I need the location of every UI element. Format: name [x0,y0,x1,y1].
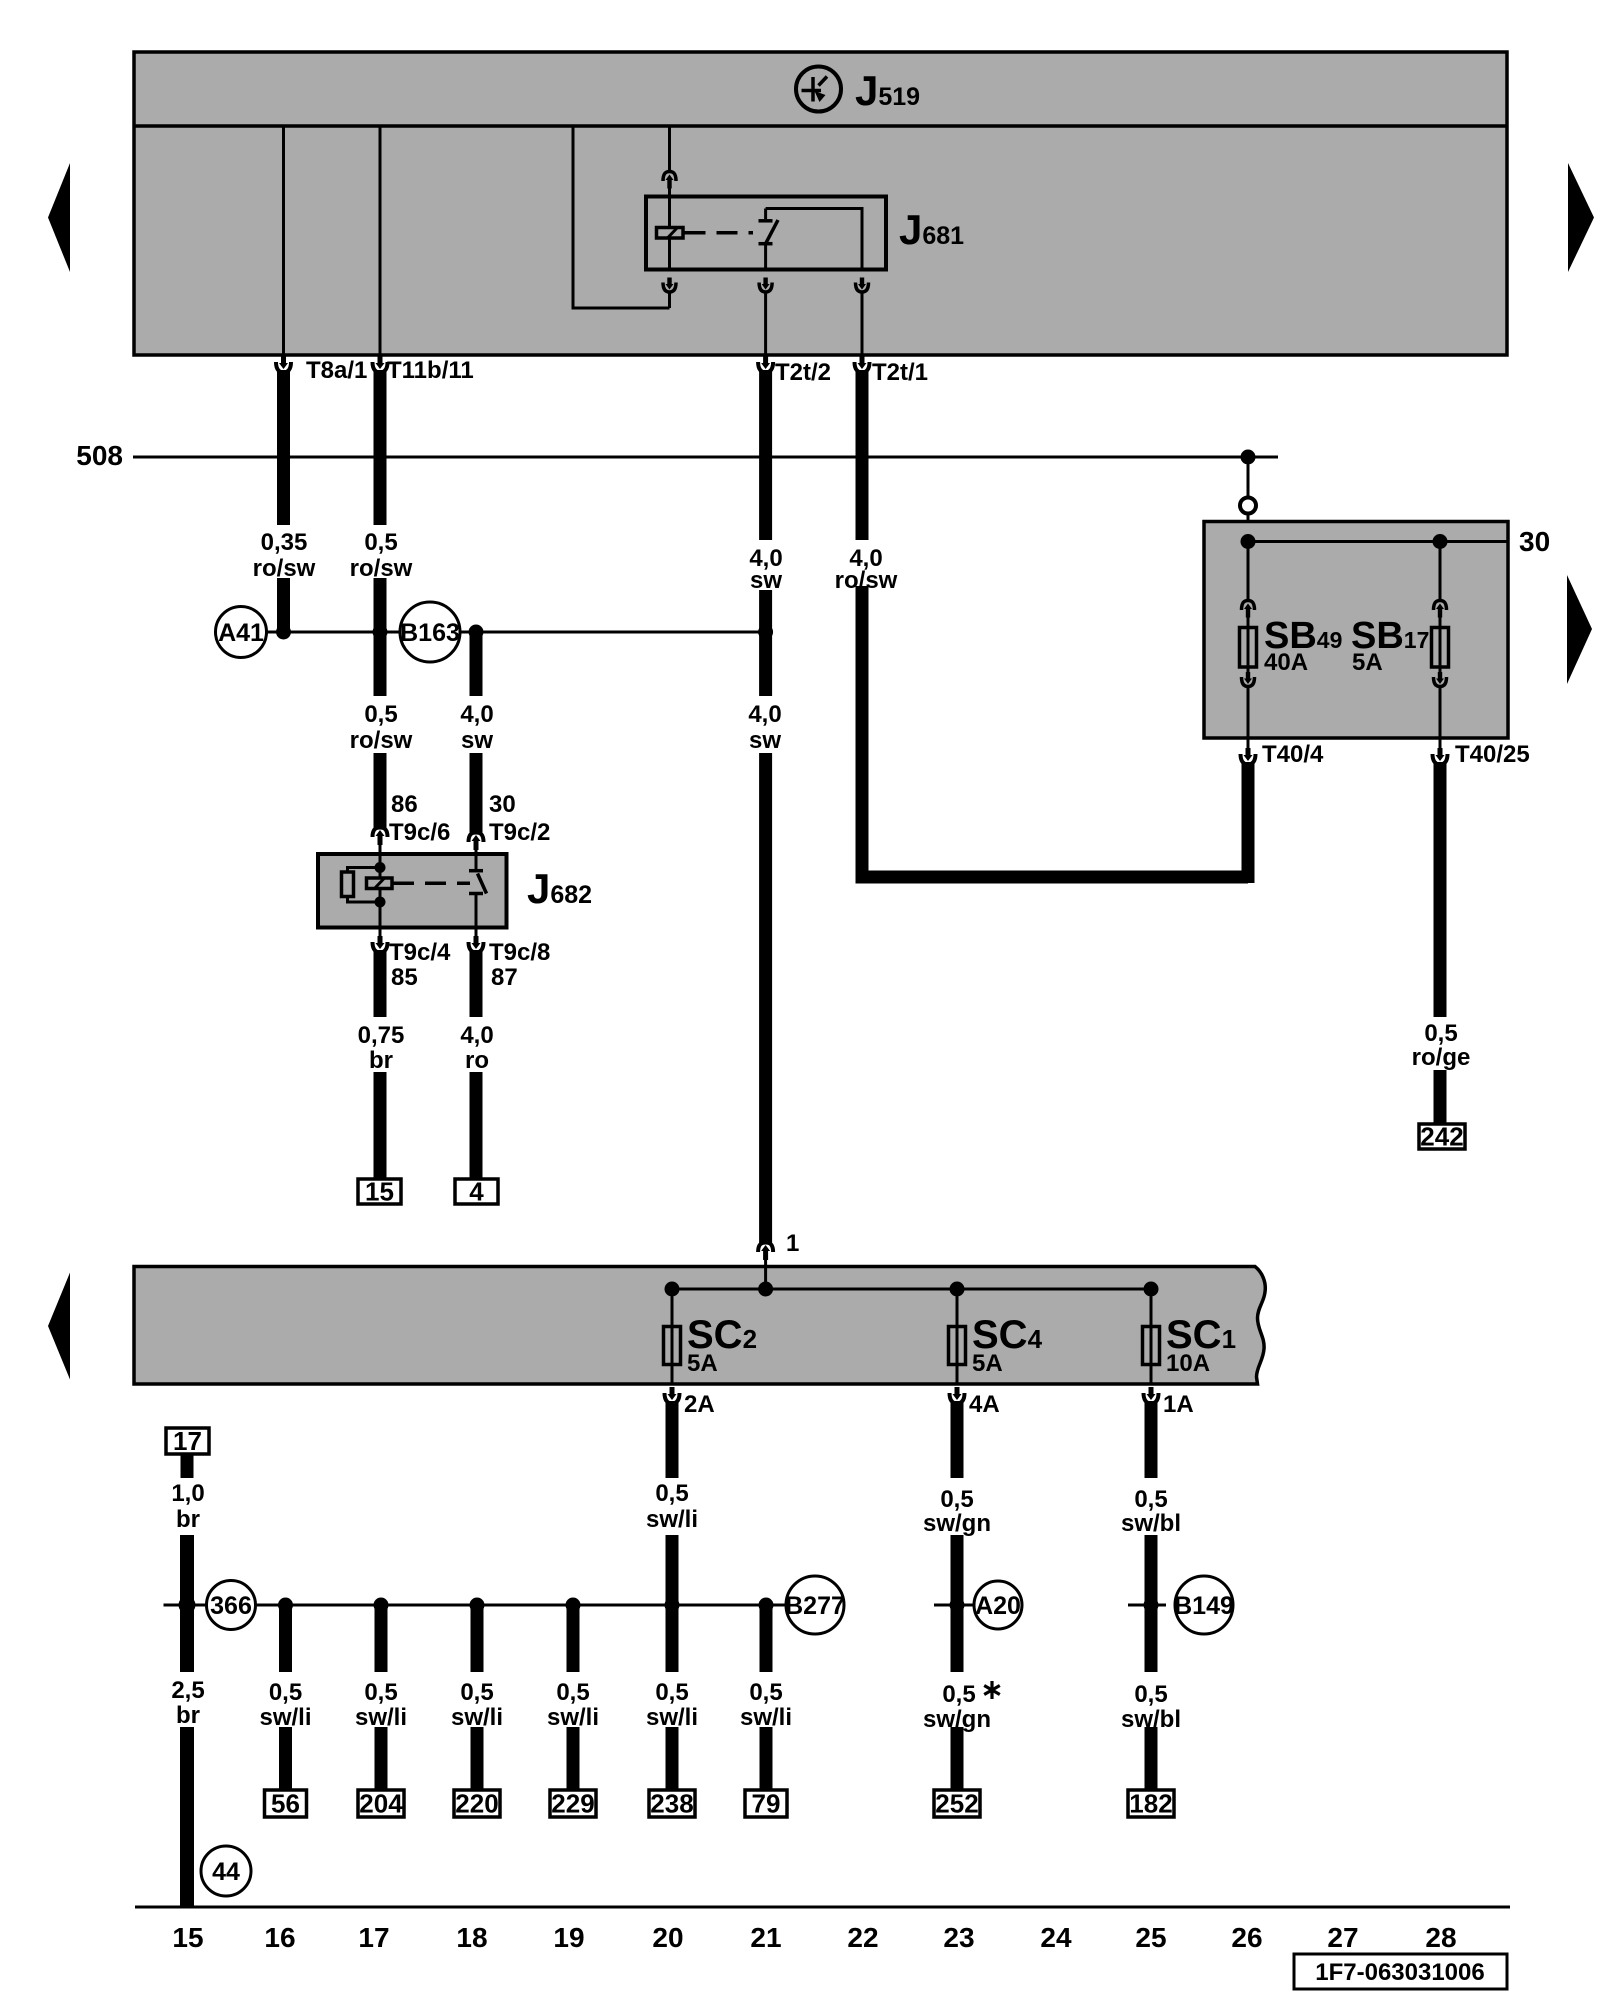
label T9c/4 [389,939,451,966]
label T8a/1 [306,357,367,384]
connector 1A (exit SC panel) [1144,1387,1159,1478]
svg-text:T9c/8: T9c/8 [489,939,550,966]
relay switch contact J682 [469,854,487,928]
label T2t/2 [775,359,831,386]
label 2A [684,1391,715,1418]
wire J519 internal supply to J681 coil (L-shape) [573,126,670,308]
svg-text:sw/li: sw/li [451,1704,503,1731]
connection node 44 circle [201,1846,251,1896]
svg-text:sw/li: sw/li [547,1704,599,1731]
svg-text:23: 23 [943,1922,974,1953]
wire 2,5 br to ground point 44 [180,1727,194,1908]
J519 control-unit symbol (circle with arrow) [796,67,841,112]
svg-text:br: br [176,1506,200,1533]
wire 1,0 br upper [181,1454,194,1478]
svg-text:0,5: 0,5 [364,1679,397,1706]
wire tick at B149 [1128,1604,1166,1607]
svg-text:sw/li: sw/li [259,1704,311,1731]
wire 0,5 ro/sw into J682 [374,753,387,828]
wire label 4,0 ro [460,1022,493,1074]
label 40A [1264,649,1308,676]
connection terminal 79 [745,1789,787,1819]
junction dot br wire [179,1597,196,1614]
connection terminal 56 [265,1789,307,1819]
svg-text:T40/4: T40/4 [1262,741,1324,768]
connector T8a/1 at J519 exit [276,356,291,525]
wire label 1,0 br [171,1480,204,1533]
wire 4,0 sw branch to relay J682 [470,632,483,696]
fuse SC4 5A [949,1289,966,1384]
label 10A (SC1) [1166,1350,1210,1377]
connection terminal 242 [1419,1122,1465,1152]
svg-text:220: 220 [455,1789,498,1819]
svg-text:sw/li: sw/li [646,1704,698,1731]
svg-text:T11b/11: T11b/11 [387,357,474,384]
wire J681 switch supply (top bridge to T2t/1) [766,209,862,270]
svg-text:25: 25 [1135,1922,1166,1953]
wire segment to terminal 252 [951,1727,964,1790]
svg-text:B163: B163 [400,619,460,647]
wire 0,5 ro/sw to relay J682 [374,632,387,696]
wire label 0,5 sw/li (79) [740,1679,792,1731]
junction dot 79 [759,1598,774,1613]
relay J682 box [318,854,507,928]
wire 0,5 ro/ge lower [1434,1070,1447,1124]
wire from 508 rail to connector circle [1247,457,1250,498]
wire 4,0 sw middle segment [759,590,772,632]
wire 4,0 sw long down to SC band [759,753,772,1243]
wire junction line A41-B163 [267,631,401,634]
label 5A (SC4) [972,1350,1003,1377]
svg-text:0,75: 0,75 [358,1022,405,1049]
svg-text:ro/ge: ro/ge [1412,1044,1471,1071]
connector pin J681 T2t/2 (arrow down) [759,278,772,356]
svg-text:5A: 5A [972,1350,1003,1377]
junction dot B149 [1144,1598,1159,1613]
label SC1 [1166,1313,1236,1357]
label 30 (battery rail) [1519,526,1550,557]
junction dot SC4 [950,1282,965,1297]
svg-text:20: 20 [652,1922,683,1953]
wire label 4,0 sw (T2t/2) [749,545,782,594]
label 87 [491,964,518,991]
ground terminal 15 [358,1177,401,1207]
svg-text:sw/bl: sw/bl [1121,1510,1181,1537]
dashed actuation line J682 [393,882,470,886]
label J519 [855,67,920,114]
wire label 0,35 ro/sw [253,529,316,582]
svg-text:sw/li: sw/li [355,1704,407,1731]
svg-text:sw: sw [461,727,493,754]
connector pin T9c/4 85 (exit J682) [379,928,382,937]
wire junction line B163 to 4,0 sw [460,631,766,634]
wire 4,0 sw to SC rail upper part [759,632,772,696]
svg-text:87: 87 [491,964,518,991]
J681 coil supply wire from J519 rail [668,126,671,171]
junction dot 56 [278,1598,293,1613]
wire 0,5 sw/li to terminal 238 [666,1605,679,1672]
connector T2t/2 at J519 exit [758,356,773,540]
svg-text:sw/li: sw/li [646,1506,698,1533]
svg-text:18: 18 [456,1922,487,1953]
wire 0,5 ro/sw middle segment [374,578,387,632]
svg-text:26: 26 [1231,1922,1262,1953]
svg-text:1A: 1A [1163,1391,1194,1418]
wire label 0,5 sw/li (from SC2) [646,1480,698,1533]
svg-text:16: 16 [264,1922,295,1953]
connector pin 30 T9c/2 (enter J682) [469,833,484,855]
svg-text:15: 15 [365,1177,394,1207]
wire 1,0 br to node 366 [180,1535,194,1672]
junction dot at 0,35 wire [276,625,291,640]
svg-text:T40/25: T40/25 [1455,741,1530,768]
label 86 [391,791,418,818]
wire label 4,0 ro/sw (T2t/1) [835,545,898,594]
label T9c/8 [489,939,550,966]
fuse SC2 5A [664,1289,681,1384]
label 5A (SC2) [687,1350,718,1377]
wire label 4,0 sw (to J682) [460,701,493,754]
svg-text:4,0: 4,0 [460,1022,493,1049]
wire label 0,5 sw/gn (from SC4) [923,1486,991,1537]
connector pin J681 coil bottom (arrow down) [663,278,676,309]
svg-text:0,35: 0,35 [261,529,308,556]
svg-text:2A: 2A [684,1391,715,1418]
wire 0,75 br lower [374,1072,387,1179]
connector circle (plug) above SB box [1240,498,1256,514]
wire segment to terminal 56 [279,1727,292,1790]
svg-text:21: 21 [750,1922,781,1953]
wire 4,0 ro/sw elbow T2t/1 to T40/4 [862,586,1248,877]
svg-text:366: 366 [210,1592,252,1620]
svg-text:5A: 5A [1352,649,1383,676]
svg-text:24: 24 [1040,1922,1072,1953]
svg-text:T9c/6: T9c/6 [389,819,450,846]
relay J681 box [646,197,886,270]
svg-text:T8a/1: T8a/1 [306,357,367,384]
junction dot at 4,0 branch [469,625,484,640]
label J681 [899,206,964,253]
wire 0,5 sw/li to node B277 rail [666,1535,679,1672]
connection node A20 circle [974,1581,1022,1629]
svg-text:56: 56 [271,1789,300,1819]
fuse SB49 40A [1247,542,1250,601]
wire 4,0 sw into J682 [470,753,483,833]
connector pin 1 (4,0 sw enters SC panel) [758,1243,773,1267]
wire label 0,5* sw/gn [923,1681,1000,1733]
connection terminal 204 [358,1789,404,1819]
svg-text:5A: 5A [687,1350,718,1377]
wire 30 rail inside SB box [1248,540,1508,543]
relay switch contact J681 [759,209,779,270]
label 508 [76,440,123,471]
junction dot wire 1 [758,1282,773,1297]
junction dot 238 [665,1598,680,1613]
junction dot 220 [470,1598,485,1613]
svg-text:252: 252 [935,1789,978,1819]
svg-text:0,5: 0,5 [655,1679,688,1706]
junction dot A20 [950,1598,965,1613]
junction dot SB17 [1433,534,1448,549]
svg-text:0,5: 0,5 [940,1486,973,1513]
svg-text:A41: A41 [218,619,264,647]
connection node A41 circle [216,607,267,658]
svg-text:182: 182 [1129,1789,1172,1819]
svg-text:0,5: 0,5 [942,1681,975,1708]
fuse SB17 5A [1439,542,1442,601]
wire rail inside SC panel [672,1267,1151,1290]
right page arrow (upper) [1568,163,1594,272]
ground terminal 17 [166,1426,209,1456]
svg-text:br: br [369,1047,393,1074]
svg-text:85: 85 [391,964,418,991]
wire 508 (horizontal rail) [133,456,1278,459]
wire 0,5 sw/li to terminal 56 [279,1605,292,1672]
svg-text:10A: 10A [1166,1350,1210,1377]
svg-text:sw/gn: sw/gn [923,1510,991,1537]
label SB17 [1351,615,1429,657]
svg-text:A20: A20 [975,1592,1021,1620]
dashed actuation line J681 [685,231,754,235]
svg-text:2,5: 2,5 [171,1677,204,1704]
connector pin T9c/8 87 (exit J682) [475,928,478,937]
svg-text:28: 28 [1425,1922,1456,1953]
wire segment to terminal 229 [567,1727,580,1790]
wire label 0,5 sw/li (220) [451,1679,503,1731]
svg-text:1: 1 [786,1230,799,1257]
svg-text:204: 204 [359,1789,403,1819]
svg-text:br: br [176,1702,200,1729]
svg-text:1F7-063031006: 1F7-063031006 [1315,1959,1484,1986]
svg-text:ro: ro [465,1047,489,1074]
wire segment to terminal 182 [1145,1727,1158,1790]
wire segment to terminal 238 [666,1727,679,1790]
wire label 0,5 sw/li (229) [547,1679,599,1731]
svg-text:T2t/1: T2t/1 [872,359,928,386]
junction dot at 0,5 wire [373,625,388,640]
connector 2A (exit SC panel) [665,1387,680,1478]
wire segment to terminal 79 [760,1727,773,1790]
wire segment to terminal 204 [375,1727,388,1790]
connection terminal 238 [649,1789,695,1819]
svg-text:0,5: 0,5 [460,1679,493,1706]
connection terminal 220 [454,1789,500,1819]
svg-text:0,5: 0,5 [1424,1020,1457,1047]
wire 0,5 sw/li to terminal 229 [567,1605,580,1672]
label T11b/11 [387,357,474,384]
svg-text:B149: B149 [1174,1592,1234,1620]
wire label 0,5 sw/bl (from SC1) [1121,1486,1181,1537]
wire label 2,5 br [171,1677,204,1729]
svg-text:22: 22 [847,1922,878,1953]
left page arrow (upper) [48,163,70,272]
wire inside J519 to pin T11b/11 [379,126,382,355]
svg-text:0,5: 0,5 [749,1679,782,1706]
wire 0,5 sw/li to terminal 204 [375,1605,388,1672]
wire 0,35 ro/sw lower segment [277,578,290,632]
relay coil J681 [657,197,684,270]
label 5A (SB17) [1352,649,1383,676]
label SB49 [1264,615,1342,657]
svg-text:ro/sw: ro/sw [350,555,413,582]
left page arrow (lower band) [48,1273,70,1380]
svg-text:0,5: 0,5 [364,701,397,728]
svg-text:sw: sw [750,567,782,594]
fuse SC1 10A [1143,1289,1160,1384]
svg-text:0,5: 0,5 [556,1679,589,1706]
bottom track line [135,1906,1510,1909]
svg-text:79: 79 [752,1789,781,1819]
wire 4,0 ro lower [470,1072,483,1179]
svg-text:T9c/4: T9c/4 [389,939,451,966]
label 1A [1163,1391,1194,1418]
connector T40/4 (exit SB box) [1247,738,1250,748]
connection node 366 circle [207,1581,256,1630]
connector 4A (exit SC panel) [950,1387,965,1478]
right page arrow (middle, SB level) [1567,575,1592,684]
connection terminal 252 [934,1789,980,1819]
svg-text:0,5: 0,5 [364,529,397,556]
connector pin 86 T9c/6 (enter J682) [373,828,388,855]
connection node B277 circle [785,1576,845,1634]
connector pin J681 coil top (arrow up) [663,172,676,197]
label SC2 [687,1313,757,1357]
svg-text:ro/sw: ro/sw [350,727,413,754]
svg-text:15: 15 [172,1922,203,1953]
svg-text:4,0: 4,0 [748,701,781,728]
svg-text:0,5: 0,5 [655,1480,688,1507]
label T2t/1 [872,359,928,386]
svg-text:17: 17 [173,1426,202,1456]
svg-text:T9c/2: T9c/2 [489,819,550,846]
wire 0,5 sw/li to terminal 220 [471,1605,484,1672]
label 85 [391,964,418,991]
svg-text:242: 242 [1420,1122,1463,1152]
svg-text:0,5: 0,5 [1134,1681,1167,1708]
label 4A [969,1391,1000,1418]
svg-text:86: 86 [391,791,418,818]
wire 0,5 sw/li to terminal 79 [760,1605,773,1672]
connector T40/25 (exit SB box) [1439,738,1442,748]
svg-text:1,0: 1,0 [171,1480,204,1507]
ground terminal 4 [455,1177,498,1207]
label 1 [786,1230,799,1257]
wire inside J519 to pin T8a/1 [282,126,285,355]
svg-text:238: 238 [650,1789,693,1819]
track numbers 15-28 [172,1922,1456,1953]
svg-text:508: 508 [76,440,123,471]
junction dot 204 [374,1598,389,1613]
wire label 0,5 sw/li (204) [355,1679,407,1731]
connection node B163 circle [400,602,460,662]
svg-text:27: 27 [1327,1922,1358,1953]
label SC4 [972,1313,1043,1357]
wire label 0,5 sw/li (238) [646,1679,698,1731]
svg-text:0,5: 0,5 [269,1679,302,1706]
svg-text:4A: 4A [969,1391,1000,1418]
svg-text:30: 30 [489,791,516,818]
wire label 0,5 sw/li (56) [259,1679,311,1731]
svg-text:17: 17 [358,1922,389,1953]
wire 0,5 sw/gn to node A20 [951,1535,964,1672]
fuse panel band (SC) with torn right edge [134,1267,1265,1385]
wire segment to terminal 220 [471,1727,484,1790]
wire from connector circle into fuse box [1247,514,1250,542]
label J682 [527,865,592,912]
svg-text:4,0: 4,0 [460,701,493,728]
svg-text:T2t/2: T2t/2 [775,359,831,386]
svg-text:19: 19 [553,1922,584,1953]
connector pin J681 T2t/1 (arrow down) [856,278,869,356]
svg-text:sw/li: sw/li [740,1704,792,1731]
wire label 4,0 sw (long middle) [748,701,781,754]
label T40/25 [1455,741,1530,768]
svg-text:sw: sw [749,727,781,754]
control unit J519 (onboard supply control unit box) [134,52,1507,355]
junction dot SC1 [1144,1282,1159,1297]
wire 0,5 sw/bl to node B149 [1145,1535,1158,1672]
label T9c/6 [389,819,450,846]
junction dot SC2 [665,1282,680,1297]
svg-text:30: 30 [1519,526,1550,557]
fuse box SB (gray) [1204,522,1508,739]
connector T2t/1 at J519 exit [855,356,870,540]
junction dot at 4,0 sw wire [758,625,773,640]
junction dot SB49 [1241,534,1256,549]
label T40/4 [1262,741,1324,768]
wire label 0,5 ro/sw (to J682) [350,701,413,754]
wire label 0,5 ro/sw [350,529,413,582]
svg-text:ro/sw: ro/sw [253,555,316,582]
diagram reference number box 1F7-063031006 [1294,1954,1507,1989]
svg-text:4: 4 [469,1177,484,1207]
wire label 0,5 sw/bl (252 side) [1121,1681,1181,1733]
connection terminal 182 [1128,1789,1174,1819]
connection terminal 229 [550,1789,596,1819]
svg-text:229: 229 [551,1789,594,1819]
label 30 (J682 pin) [489,791,516,818]
wire tick at A20 [934,1604,973,1607]
svg-text:44: 44 [212,1858,240,1886]
svg-text:B277: B277 [785,1592,845,1620]
svg-text:0,5: 0,5 [1134,1486,1167,1513]
wire label 0,75 br [358,1022,405,1074]
connector T11b/11 at J519 exit [373,356,388,525]
node junction on 508 rail [1241,450,1256,465]
relay J682 coil with parallel resistor [342,854,393,928]
wire label 0,5 ro/ge [1412,1020,1471,1071]
svg-text:40A: 40A [1264,649,1308,676]
wire junction rail 366-B277 [164,1604,787,1607]
label T9c/2 [489,819,550,846]
junction dot 229 [566,1598,581,1613]
connection node B149 circle [1174,1576,1234,1634]
